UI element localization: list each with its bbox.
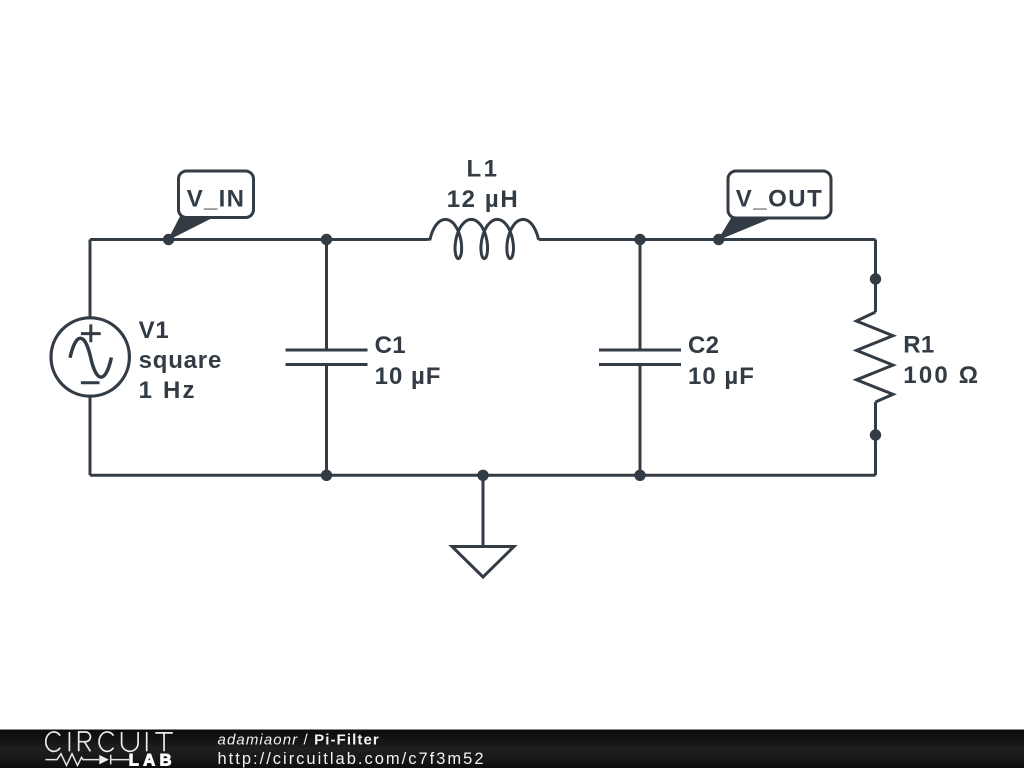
svg-text:LAB: LAB (129, 751, 176, 768)
svg-text:V_OUT: V_OUT (736, 185, 824, 212)
svg-text:adamiaonr / Pi-Filter: adamiaonr / Pi-Filter (218, 732, 380, 749)
svg-text:C1: C1 (375, 332, 406, 359)
svg-text:http://circuitlab.com/c7f3m52: http://circuitlab.com/c7f3m52 (218, 750, 486, 768)
svg-text:V1: V1 (139, 317, 170, 344)
svg-text:10 µF: 10 µF (688, 363, 755, 390)
svg-text:12 µH: 12 µH (447, 186, 520, 213)
svg-text:L1: L1 (466, 156, 499, 183)
svg-text:C2: C2 (688, 332, 719, 359)
svg-text:100 Ω: 100 Ω (903, 362, 980, 389)
svg-text:square: square (139, 347, 223, 374)
svg-text:10 µF: 10 µF (375, 363, 442, 390)
svg-text:V_IN: V_IN (187, 185, 246, 212)
svg-text:1 Hz: 1 Hz (139, 377, 197, 404)
svg-text:R1: R1 (903, 332, 934, 359)
